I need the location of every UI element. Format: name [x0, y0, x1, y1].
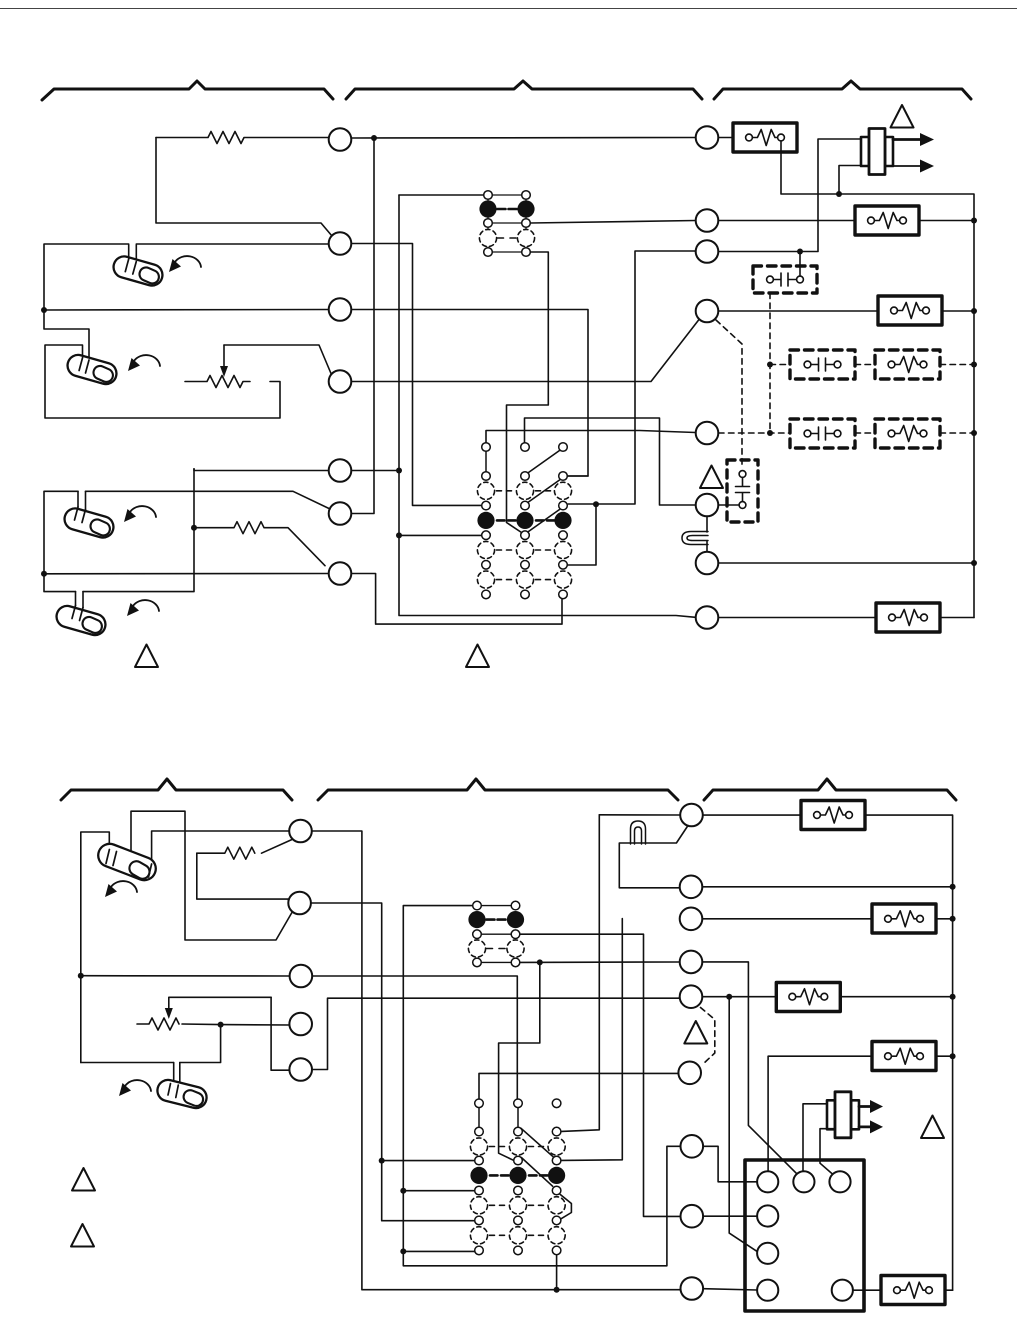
dashed jumper T4-T6	[701, 1008, 715, 1065]
wire	[525, 418, 696, 505]
junction	[41, 307, 47, 313]
terminal 2	[696, 300, 719, 323]
top page rule	[0, 8, 1017, 10]
terminal C1	[289, 820, 312, 843]
block terminal d	[757, 1205, 778, 1226]
wire	[352, 310, 589, 477]
junction	[950, 994, 956, 1000]
brace: system section	[714, 81, 971, 99]
wire	[940, 617, 974, 619]
wire	[568, 251, 696, 504]
terminal T3	[680, 908, 703, 931]
wire	[703, 814, 801, 816]
wire	[719, 220, 856, 222]
wire	[382, 1160, 475, 1162]
wire	[719, 310, 879, 312]
pot wiper arrow	[223, 345, 225, 368]
relay contact block K2 (3-pole)	[482, 443, 568, 580]
terminal Y	[329, 232, 352, 255]
resistor R3	[194, 522, 325, 566]
block terminal e	[757, 1243, 778, 1264]
wire	[194, 469, 329, 471]
brace: thermostat section	[61, 779, 292, 800]
wire	[486, 431, 696, 443]
junction	[971, 560, 977, 566]
wire	[81, 975, 290, 977]
dashed contact box F	[753, 266, 817, 293]
mercury switch M4 electrodes	[72, 606, 83, 621]
junction	[78, 973, 84, 979]
heat relay box B	[872, 904, 936, 933]
wire	[719, 137, 734, 139]
blade wire	[619, 826, 688, 888]
K2 dashes row 550	[497, 549, 551, 551]
wire	[45, 345, 280, 418]
wire	[568, 475, 588, 477]
mercury switch M3	[62, 506, 116, 540]
junction	[218, 1022, 224, 1028]
relay contact block K4 (3-pole)	[479, 1108, 571, 1236]
brace: subbase section	[318, 779, 678, 800]
plug arrow 2	[859, 1126, 872, 1129]
junction	[726, 994, 732, 1000]
terminal TL1	[681, 1135, 704, 1158]
rotation arrow	[105, 881, 137, 897]
rotation arrow	[119, 1080, 151, 1096]
terminal T1	[680, 804, 703, 827]
junction	[554, 1287, 560, 1293]
terminal RH	[696, 126, 719, 149]
K1 contacts col1	[484, 191, 493, 200]
block terminal c	[829, 1171, 850, 1192]
warning triangle 8	[921, 1116, 944, 1139]
K1 contacts col2	[522, 191, 531, 200]
wire	[562, 815, 600, 1132]
heat relay box E	[881, 1276, 945, 1305]
wire	[44, 309, 329, 312]
terminal R	[329, 370, 352, 393]
wire	[696, 139, 862, 252]
terminal T2	[680, 876, 703, 899]
junction	[836, 191, 842, 197]
mercury switch M1	[111, 254, 165, 288]
dashed contact box C	[790, 419, 855, 448]
junction	[797, 249, 803, 255]
terminal circle 7	[329, 562, 352, 585]
K4 solid dashes row 1175.4	[490, 1174, 548, 1177]
K3 link row3	[481, 933, 511, 935]
wire	[403, 1190, 474, 1192]
K4 blade 1	[521, 1128, 554, 1157]
plug lead 2	[820, 1129, 835, 1175]
wire	[399, 194, 484, 196]
wire	[840, 996, 952, 998]
K3 link row1	[481, 905, 511, 907]
resistor R4	[197, 840, 292, 860]
relay contact block K1 (2-pole)	[479, 191, 534, 257]
terminal T5	[680, 985, 703, 1008]
K2 dashes row 579.6	[497, 579, 551, 581]
dashed heat box B	[875, 350, 940, 379]
terminal G	[329, 298, 352, 321]
terminal W	[329, 128, 352, 151]
wire	[131, 811, 293, 940]
terminal circle 6	[329, 502, 352, 525]
wire	[703, 962, 798, 1175]
warning triangle 6	[71, 1224, 94, 1247]
K2 contact circles	[477, 472, 571, 599]
junction	[379, 1158, 385, 1164]
wire	[197, 853, 288, 900]
wire	[706, 541, 708, 552]
pot wiper wire	[271, 997, 292, 1070]
terminal 1	[696, 422, 719, 445]
rotation arrow	[124, 506, 156, 522]
heat relay box 1	[733, 123, 797, 152]
wire	[703, 1215, 758, 1217]
K1 movable contact dashes	[498, 208, 517, 211]
junction	[41, 571, 47, 577]
block terminal g	[832, 1280, 853, 1301]
terminal B	[696, 494, 719, 517]
wire	[479, 1073, 678, 1099]
terminal T6	[678, 1062, 701, 1085]
K4 blade 2 continuation	[560, 1195, 571, 1219]
mercury switch M6 electrodes	[168, 1084, 178, 1098]
wire	[44, 573, 329, 575]
K1 link row1	[492, 194, 522, 196]
wire	[312, 976, 517, 1099]
mercury switch M5 electrodes	[106, 850, 152, 878]
wire	[703, 918, 873, 920]
mercury switch M4	[54, 603, 108, 637]
K2 col1 stem	[485, 451, 487, 471]
wire	[311, 903, 475, 1221]
wire	[839, 166, 861, 195]
dashed heat box D	[875, 419, 940, 448]
vertical contact in E	[736, 471, 750, 509]
wire	[520, 934, 680, 1216]
wire	[719, 562, 975, 564]
terminal TL3	[681, 1277, 704, 1300]
pot wiper arrow	[169, 997, 271, 1010]
dashed contact box A	[790, 350, 855, 379]
wire	[719, 617, 877, 619]
wire	[312, 831, 681, 1290]
wire	[152, 831, 289, 866]
dashed blade	[716, 320, 742, 467]
wire	[399, 534, 482, 536]
rotation arrow	[127, 600, 159, 616]
junction	[537, 959, 543, 965]
wire	[945, 1289, 953, 1291]
wire	[352, 320, 700, 382]
terminal C4	[289, 1013, 312, 1036]
wire	[936, 918, 953, 920]
wire	[599, 814, 680, 816]
K3 movable dashes	[487, 918, 506, 921]
wire	[562, 919, 623, 1161]
wire	[352, 470, 400, 472]
potentiometer R2	[185, 376, 250, 388]
wire	[352, 137, 696, 140]
wire	[224, 345, 331, 374]
wire	[44, 310, 89, 360]
wire	[352, 574, 563, 625]
block terminal f	[757, 1280, 778, 1301]
junction	[371, 135, 377, 141]
quick connect plug P2	[827, 1092, 859, 1138]
junction	[971, 430, 977, 436]
wire	[719, 504, 740, 506]
wire	[44, 244, 329, 310]
warning triangle 2	[135, 645, 158, 668]
K1 link row3	[492, 222, 522, 224]
jumper clip J1	[682, 532, 708, 545]
rotation arrow	[128, 355, 160, 371]
wire	[942, 310, 974, 312]
wire	[706, 517, 708, 533]
mercury switch M2 electrodes	[79, 358, 89, 374]
jumper clip J2	[631, 821, 646, 844]
K4 contact circles	[470, 1099, 565, 1255]
wire	[799, 252, 801, 277]
resistor R1	[156, 132, 328, 144]
junction	[971, 218, 977, 224]
wire: loop	[44, 469, 330, 592]
mercury switch M2	[65, 352, 119, 386]
junction	[767, 362, 773, 368]
wire	[781, 141, 974, 618]
dashed wire	[769, 293, 771, 433]
K1 link row5	[492, 251, 522, 253]
terminal T4	[680, 951, 703, 974]
dashed wire row 433	[719, 432, 975, 434]
K3 link row5	[481, 961, 511, 963]
mercury switch M1 electrodes	[125, 259, 136, 274]
terminal 3	[696, 240, 719, 263]
junction	[400, 1188, 406, 1194]
K4 dashes row 1205.3	[490, 1204, 544, 1206]
terminal circle 5	[329, 459, 352, 482]
warning triangle 4	[700, 466, 723, 489]
block terminal b	[793, 1171, 814, 1192]
K3 contact circles	[468, 901, 524, 966]
relay contact block K3 (2-pole)	[481, 906, 511, 963]
K2 top contacts	[482, 443, 491, 452]
mercury switch M6 leads	[174, 1063, 180, 1086]
wire	[499, 962, 540, 1160]
plug arrow 1	[893, 138, 921, 141]
quick connect plug P1	[861, 129, 893, 175]
junction	[191, 525, 197, 531]
K2 blade 3	[529, 510, 560, 532]
wire	[312, 997, 679, 1069]
heat relay box D	[872, 1042, 936, 1071]
dashed vertical contact box E	[727, 460, 758, 522]
terminal TL2	[681, 1205, 704, 1228]
rotation arrow	[169, 256, 201, 272]
brace: system section	[704, 779, 956, 800]
wire	[81, 1025, 221, 1063]
junction	[767, 430, 773, 436]
plug arrow 1	[859, 1105, 872, 1108]
warning triangle 3	[466, 645, 489, 668]
junction	[396, 532, 402, 538]
mercury switch M3 electrodes	[75, 507, 86, 523]
junction	[950, 884, 956, 890]
terminal C5	[289, 1058, 312, 1081]
wire	[531, 221, 696, 224]
wire	[556, 1255, 558, 1290]
dashed wire row 364	[770, 364, 974, 366]
K4 blade 2	[522, 1158, 553, 1187]
heat relay box A	[801, 801, 865, 830]
terminal C2	[288, 892, 311, 915]
mercury switch M1 leads	[129, 245, 137, 262]
heat relay box 3	[878, 296, 942, 325]
junction	[971, 362, 977, 368]
K2 movable dashes row 490.8	[497, 490, 551, 492]
wire: right rail	[865, 815, 953, 1290]
wire	[520, 961, 680, 963]
K4 dashes row 1235.3	[490, 1234, 544, 1236]
warning triangle 1	[891, 105, 914, 128]
junction	[971, 308, 977, 314]
K2 blade 2	[529, 480, 560, 502]
wire	[729, 997, 760, 1254]
K4 col stems	[479, 1108, 518, 1128]
terminal R2	[696, 606, 719, 629]
brace: subbase section	[346, 81, 702, 99]
mercury switch M5	[95, 841, 159, 884]
heat relay box C	[776, 983, 840, 1012]
terminal O	[696, 552, 719, 575]
wire	[352, 138, 374, 514]
junction	[400, 1248, 406, 1254]
K1 column ticks	[488, 199, 526, 248]
mercury switch M3 leads	[78, 491, 86, 509]
K2 solid dashes row 520.4	[497, 519, 555, 522]
mercury switch M4 leads	[76, 592, 84, 608]
wire	[703, 886, 953, 888]
wire	[919, 220, 974, 222]
wire	[81, 832, 110, 1063]
wire	[403, 906, 680, 1266]
wire	[403, 1250, 474, 1252]
wire: vertical bus B	[399, 195, 696, 617]
wire	[703, 1146, 757, 1182]
mercury switch M6	[155, 1078, 209, 1111]
wire	[853, 1289, 881, 1291]
wire	[156, 138, 332, 237]
block terminal a	[757, 1171, 778, 1192]
terminal C3	[290, 965, 313, 988]
wire	[936, 1055, 953, 1057]
terminal 4	[696, 209, 719, 232]
plug arrow 2	[893, 165, 921, 167]
plug lead 1	[803, 1104, 827, 1171]
heat relay box 4	[876, 603, 940, 632]
wire	[352, 244, 482, 506]
K4 movable dashes row 1146.5	[490, 1146, 544, 1148]
wire	[568, 504, 596, 565]
junction	[593, 501, 599, 507]
warning triangle 5	[72, 1168, 95, 1191]
wire	[507, 252, 549, 533]
junction	[950, 1053, 956, 1059]
K2 blade 1	[529, 451, 560, 473]
wire	[768, 1056, 872, 1171]
junction	[396, 468, 402, 474]
terminal block box	[745, 1160, 864, 1311]
brace: thermostat section	[42, 81, 333, 100]
junction	[950, 916, 956, 922]
potentiometer R5	[137, 1018, 290, 1030]
wire	[703, 1289, 757, 1290]
wire	[703, 996, 777, 998]
warning triangle 7	[684, 1021, 707, 1044]
heat relay box 2	[855, 206, 919, 235]
